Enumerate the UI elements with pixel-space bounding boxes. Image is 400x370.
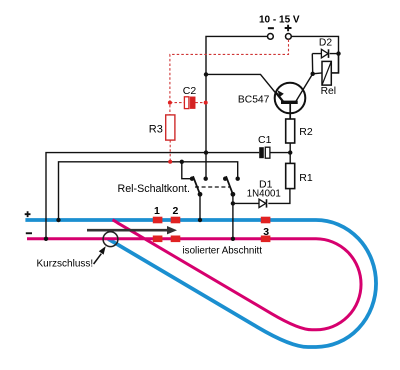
- wire: switch S2 pole to magenta rail: [232, 194, 234, 239]
- junction: D1 branch on S2 pole wire: [231, 201, 235, 205]
- wire: relay right side to D2 cathode: [331, 54, 338, 73]
- junction: D2 cathode / plus rail node: [336, 51, 340, 55]
- switch S1 pole: [198, 192, 203, 197]
- wire (red dashed): plus terminal to R3 top: [170, 40, 289, 115]
- junction: S1 left throw feed on plus line: [180, 160, 184, 164]
- wire: base lead to R2: [289, 104, 291, 119]
- wire (red dashed): R3 bottom to plus feed line: [169, 140, 171, 162]
- insulation gap 3 on blue rail: [261, 217, 271, 224]
- wire: emitter lead to ground vertical: [206, 74, 283, 102]
- svg-text:R2: R2: [299, 126, 313, 138]
- junction (red): R3 bottom on plus feed line: [168, 160, 172, 164]
- svg-text:C1: C1: [258, 134, 272, 146]
- resistor R1: [286, 163, 295, 188]
- wire: plus feed line from blue rail to switch throws: [59, 162, 238, 220]
- label + (track feed): [25, 211, 31, 217]
- svg-text:BC547: BC547: [238, 95, 270, 106]
- wire: D2 parallel branch: [312, 54, 338, 74]
- wire: plus terminal to D2/relay corner: [291, 36, 338, 73]
- junction: ground line on ground vertical: [204, 150, 208, 154]
- label - (track feed): [26, 232, 32, 234]
- svg-text:3: 3: [263, 226, 269, 238]
- switch S1 lever: [193, 176, 200, 194]
- switch S1 right throw contact: [204, 177, 208, 181]
- svg-text:1: 1: [154, 205, 160, 217]
- arrow to short-circuit point: [94, 254, 102, 264]
- svg-text:Rel: Rel: [321, 86, 336, 97]
- terminal: minus supply: [268, 34, 274, 40]
- short-circuit marker circle: [103, 232, 118, 247]
- diode D2: [321, 49, 328, 58]
- switch S2 lever: [226, 176, 233, 194]
- junction: S1 pole on blue rail: [198, 218, 202, 222]
- svg-text:2: 2: [173, 205, 179, 217]
- wire: ground line to C1 and magenta rail: [46, 153, 259, 239]
- switch S1 left throw contact: [190, 177, 194, 181]
- switch S2 pole: [231, 192, 236, 197]
- svg-text:1N4001: 1N4001: [247, 188, 281, 199]
- wire: drop to switch S1 left throw: [182, 162, 192, 179]
- terminal: plus supply: [286, 34, 292, 40]
- svg-text:D2: D2: [319, 38, 332, 49]
- junction (red): C2 tap on R3 wire: [168, 101, 172, 105]
- svg-text:Rel-Schaltkont.: Rel-Schaltkont.: [118, 183, 190, 195]
- junction: ground line on magenta rail: [44, 237, 48, 241]
- wire: R1 top to R2 bottom: [289, 143, 291, 163]
- dashed mechanical link between S1 and S2: [195, 186, 230, 188]
- capacitor C2: [184, 97, 189, 109]
- insulation gap 1 on magenta rail: [153, 236, 163, 243]
- insulation gap 2 on blue rail: [171, 217, 181, 224]
- junction: emitter wire on ground vertical: [204, 72, 208, 76]
- track: blue outer rail (+) with reversing loop: [25, 220, 376, 347]
- diode D1 1N4001: [259, 199, 266, 207]
- svg-text:R1: R1: [299, 172, 313, 184]
- switch S2 right throw contact: [236, 177, 240, 181]
- relay coil Rel: [322, 61, 331, 85]
- resistor R2: [286, 119, 295, 143]
- svg-text:Kurzschluss!: Kurzschluss!: [37, 259, 94, 270]
- wire: C1 to R1/R2 junction: [270, 152, 290, 154]
- travel direction arrow: [87, 229, 170, 232]
- junction (red): C2 on ground vertical: [204, 101, 208, 105]
- wire: minus terminal to ground vertical: [206, 36, 267, 179]
- junction: C1 / R1 / R2 node: [288, 150, 292, 154]
- insulation gap 1 on blue rail: [153, 217, 163, 224]
- track: magenta inner rail (-) with reversing loop: [27, 220, 361, 330]
- label - at minus terminal: [268, 27, 274, 29]
- svg-text:C2: C2: [183, 85, 197, 97]
- wire: collector lead: [296, 74, 313, 102]
- junction: collector / relay / D2 anode node: [311, 72, 315, 76]
- junction: S2 pole on magenta rail: [231, 237, 235, 241]
- svg-text:R3: R3: [149, 123, 163, 135]
- insulation gap 3 on magenta rail: [261, 236, 271, 243]
- resistor R3: [166, 115, 175, 140]
- capacitor C1: [259, 147, 264, 158]
- label + at plus terminal: [285, 25, 292, 32]
- wire: switch S1 pole to blue rail: [199, 194, 201, 220]
- transistor Q1 BC547: [275, 83, 306, 114]
- switch S2 left throw contact: [223, 177, 227, 181]
- insulation gap 2 on magenta rail: [171, 236, 181, 243]
- svg-text:isolierter Abschnitt: isolierter Abschnitt: [183, 245, 263, 256]
- wire (red dashed): C2 branch: [170, 102, 206, 104]
- junction: plus feed on blue rail: [56, 218, 60, 222]
- svg-text:10 - 15 V: 10 - 15 V: [259, 15, 300, 26]
- wire: D1 branch to R1 bottom: [233, 189, 290, 204]
